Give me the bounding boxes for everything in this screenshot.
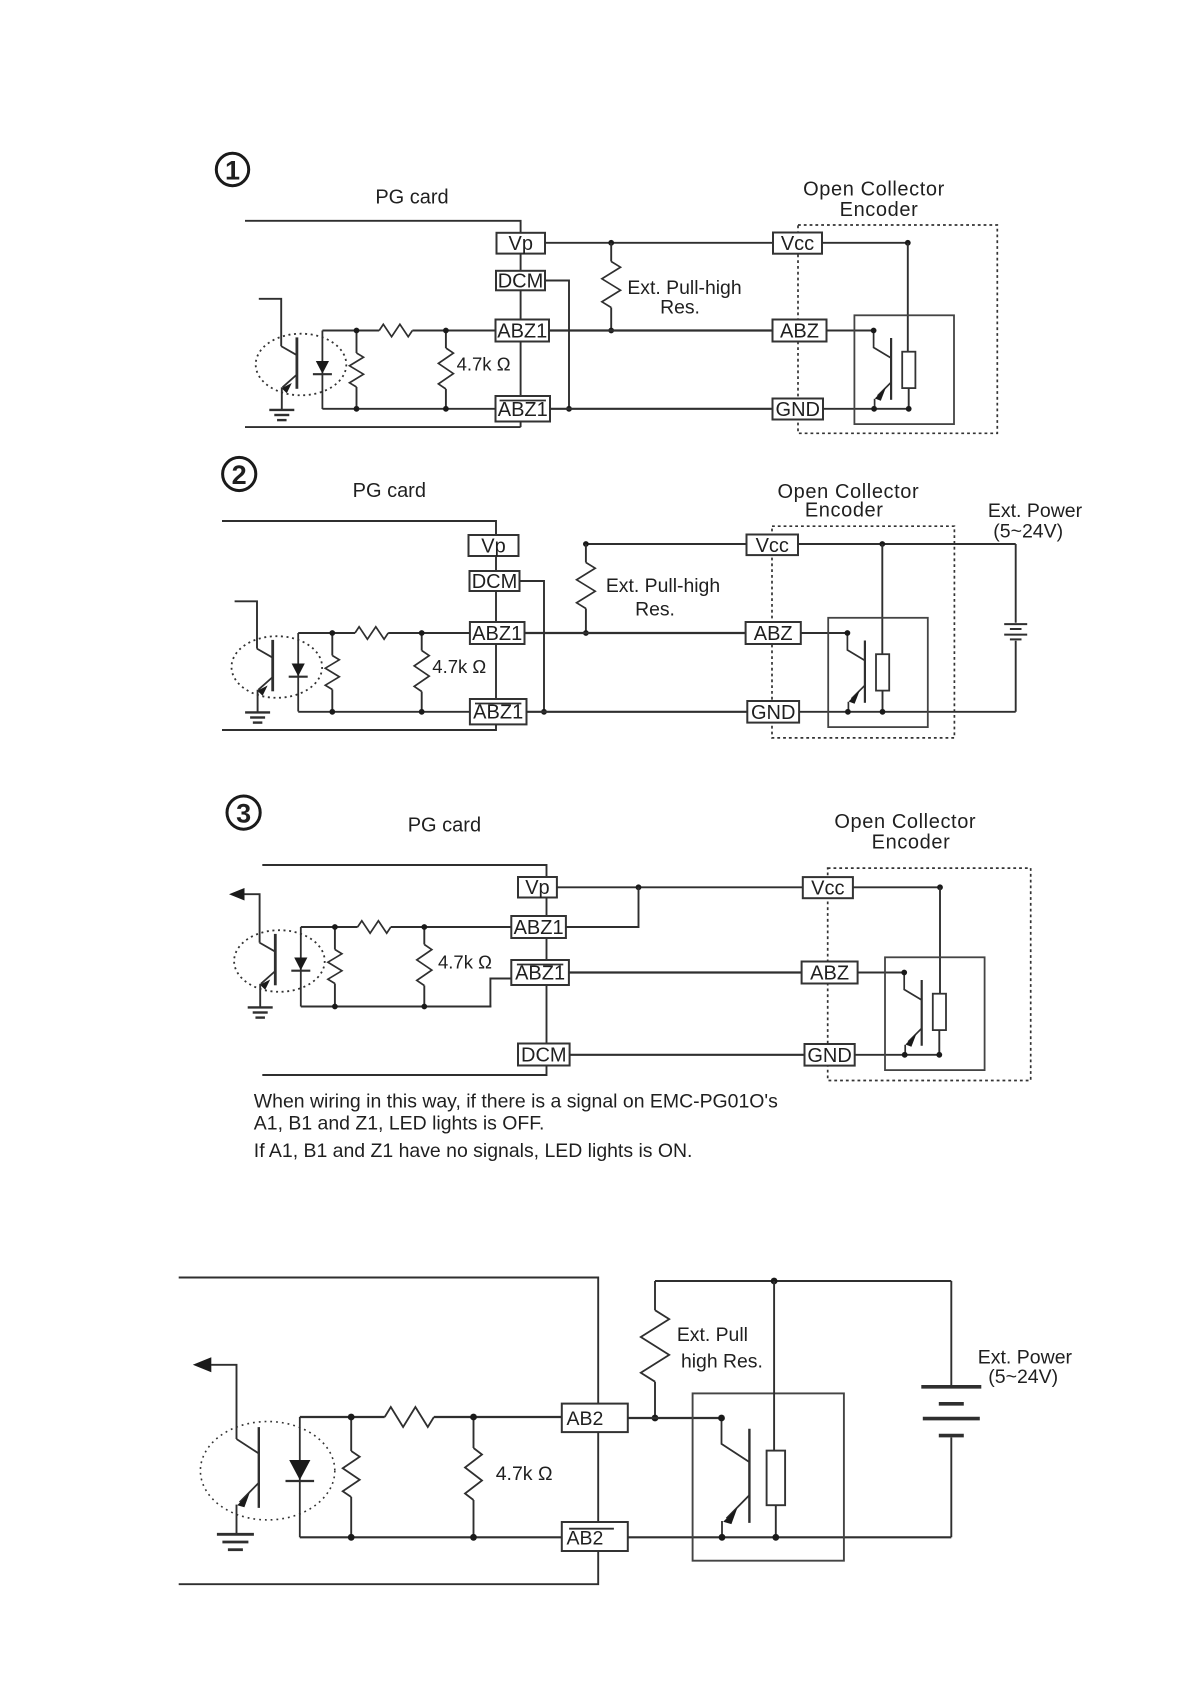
junction [332,1004,338,1010]
opto dotted outline [231,636,322,698]
PG card bottom border [222,724,496,730]
ground [217,1533,254,1536]
wire - Vp to Vcc [545,242,773,244]
opto IR photodiode D [300,927,302,1007]
wire - ABZ1bar to GND [527,711,748,713]
junction [901,970,907,976]
encoder output transistor [722,1418,749,1462]
junction [348,1534,355,1541]
junction [871,406,877,412]
wire - DCM jog to ABZ1bar line [545,281,569,409]
junction [354,328,360,334]
wire - Vp to Vcc [557,886,804,888]
wire [520,342,522,397]
wire - GND into encoder [855,1054,941,1056]
wire - resistor lower lead [908,388,910,409]
terminal ABZ1 [511,916,566,938]
resistor - Ext. Pull-high [610,243,612,262]
junction [470,1534,477,1541]
svg-text:(5~24V): (5~24V) [993,521,1063,543]
terminal Vp [518,877,557,898]
wire - ext power feed [1015,544,1017,623]
junction [845,709,851,715]
junction [419,630,425,636]
svg-text:Vcc: Vcc [781,233,814,255]
terminal ABZ1 [496,320,550,342]
wire [520,254,522,271]
svg-text:DCM: DCM [472,571,518,593]
terminal AB2 (inverted) [562,1522,628,1551]
wire - Vcc drop to resistor [881,544,883,654]
svg-text:ABZ1: ABZ1 [515,963,565,985]
resistor - series R2 [355,627,388,639]
junction [652,1415,659,1422]
ground [245,711,270,713]
junction [608,240,614,246]
resistor - series R2 [379,324,412,336]
junction [329,630,335,636]
battery - Ext. Power 5~24V [921,1385,981,1389]
resistor - series R2 [358,921,391,933]
wire - resistor lower lead [882,691,884,712]
opto photo-transistor Q [281,346,297,355]
terminal Vp [497,233,546,254]
terminal Vcc [747,535,799,556]
wire - Vcc to ext power [798,543,1016,545]
resistor - encoder internal [933,994,946,1030]
svg-text:high Res.: high Res. [681,1351,763,1373]
svg-text:(5~24V): (5~24V) [988,1366,1058,1388]
svg-text:Encoder: Encoder [840,199,919,221]
wire - AB2bar wire [628,1536,951,1538]
terminal AB2 [562,1404,628,1433]
resistor - encoder internal [767,1451,786,1506]
wire - DCM to GND [570,1054,805,1056]
wire - ext pull top rail [655,1280,951,1282]
svg-text:Vp: Vp [509,233,533,255]
wire - Vcc drop to resistor [939,887,941,995]
svg-text:2: 2 [232,460,247,490]
PG card bottom border [179,1551,599,1584]
junction [566,406,572,412]
junction [443,328,449,334]
resistor R3 4.7k [423,927,425,945]
wire - arrow lead [244,894,259,942]
wire - opto top rail left [301,926,358,928]
svg-text:DCM: DCM [498,271,544,293]
svg-text:3: 3 [236,798,251,828]
resistor - opto input R1 [350,1417,352,1451]
opto photo-transistor Q [260,943,276,952]
resistor - encoder internal [902,352,915,388]
wire - emitter to ground [257,690,259,712]
terminal DCM [470,571,520,591]
svg-text:AB2: AB2 [567,1527,604,1549]
wire - ABZ1 to ABZ [525,632,746,634]
PG card top border [222,521,496,535]
wire - ABZ into encoder [801,632,848,634]
wire - Vcc drop to resistor [907,243,909,352]
junction [329,709,335,715]
junction [871,328,877,334]
opto dotted outline [234,930,325,992]
junction [608,328,614,334]
terminal Vcc [773,233,822,254]
terminal Vcc [803,877,853,898]
resistor - Ext. Pull high [654,1281,656,1310]
junction [880,709,886,715]
wire [495,591,497,622]
junction [905,240,911,246]
svg-text:Res.: Res. [635,599,675,621]
svg-text:Vp: Vp [481,536,505,558]
junction [719,1534,726,1541]
encoder output transistor [847,633,865,661]
terminal ABZ1 (inverted) [470,699,527,724]
wire - emitter to ground [259,984,261,1007]
wire - emitter to ground [236,1505,238,1534]
wire - AB2 to encoder [628,1417,722,1419]
wire - Vcc drop to resistor [773,1281,775,1451]
junction [636,884,642,890]
opto dotted outline [200,1422,334,1520]
terminal GND [805,1044,855,1066]
section 1 marker (circled 1) [216,153,248,185]
wire - DCM jog to ABZ1bar line [520,581,545,712]
wire - pullhigh to Vcc [586,543,747,545]
Open Collector Encoder dashed outline [828,868,1031,1080]
Open Collector Encoder dashed outline [772,526,954,738]
wire [495,556,497,571]
svg-text:Ext. Pull: Ext. Pull [677,1324,748,1346]
resistor R3 4.7k [421,633,423,651]
wire [520,290,522,319]
junction [879,541,885,547]
resistor - opto input R1 [334,927,336,950]
svg-text:PG card: PG card [375,187,448,209]
svg-text:Ext. Pull-high: Ext. Pull-high [606,575,720,597]
resistor R3 4.7k [445,331,447,349]
wire - ext power feed [950,1281,952,1385]
svg-text:GND: GND [807,1045,851,1067]
junction [583,630,589,636]
wire [495,644,497,699]
wire - opto bottom rail [301,1006,492,1008]
terminal ABZ1 [470,622,525,644]
svg-text:ABZ: ABZ [810,963,849,985]
signal arrow to PG card input [229,888,245,901]
junction [421,924,427,930]
wire - ABZ into encoder [858,972,905,974]
wire - opto top rail left [298,632,355,634]
svg-text:1: 1 [225,155,240,185]
svg-text:If A1, B1 and Z1 have no signa: If A1, B1 and Z1 have no signals, LED li… [254,1140,693,1162]
svg-text:Vp: Vp [525,877,549,899]
svg-text:Vcc: Vcc [756,535,789,557]
opto IR photodiode D [321,331,323,410]
PG card bottom border [245,422,521,428]
wire - opto top rail right [388,632,470,634]
junction [443,406,449,412]
wire - Vcc rail [822,242,908,244]
terminal ABZ [802,962,858,984]
wire - emitter to ground [281,387,283,409]
svg-text:Res.: Res. [660,297,700,319]
svg-text:ABZ1: ABZ1 [514,917,564,939]
terminal ABZ1 (inverted) [496,396,551,422]
svg-text:Open Collector: Open Collector [834,811,976,833]
resistor - opto input R1 [356,331,358,354]
svg-text:AB2: AB2 [567,1408,604,1430]
wire - opto bottom rail [298,711,470,713]
opto IR photodiode D [297,633,299,712]
junction [772,1534,779,1541]
wire - Vcc rail [853,886,940,888]
resistor R3 4.7k [473,1417,475,1448]
wire - GND into encoder [823,408,909,410]
svg-text:GND: GND [776,399,820,421]
resistor - opto input R1 [331,633,333,656]
opto photo-transistor Q [237,1439,259,1454]
encoder output transistor [904,973,922,1001]
signal arrow to PG card input [193,1357,212,1372]
wire - ABZ1 to ABZ [549,329,773,331]
junction [906,406,912,412]
junction [354,406,360,412]
terminal ABZ [773,320,827,342]
wire [546,985,548,1044]
opto IR photodiode D [299,1417,301,1537]
wire - opto top rail left [300,1416,385,1418]
svg-text:ABZ: ABZ [754,623,793,645]
wire - opto collector stub [235,601,257,648]
svg-text:When wiring in this way, if th: When wiring in this way, if there is a s… [254,1090,778,1112]
battery - Ext. Power 5~24V [1004,623,1027,625]
PG card top border [179,1278,599,1405]
svg-text:PG card: PG card [353,480,426,502]
PG card top border [262,865,546,877]
junction [332,924,338,930]
wire - opto bottom rail [300,1536,562,1538]
svg-text:ABZ1: ABZ1 [472,623,522,645]
wire - opto top rail left [322,330,379,332]
PG card top border [245,221,521,233]
junction [470,1414,477,1421]
svg-text:4.7k Ω: 4.7k Ω [457,354,511,375]
terminal ABZ [746,622,801,644]
encoder inner box [854,315,954,424]
svg-text:ABZ1: ABZ1 [473,702,523,724]
encoder inner box [693,1393,844,1560]
junction [937,884,943,890]
resistor - Ext. Pull-high [585,544,587,563]
encoder inner box [885,957,985,1070]
wire - ABZ into encoder [827,330,874,332]
junction [845,630,851,636]
wire - ABZ1bar to GND [550,408,773,410]
svg-text:Vcc: Vcc [811,878,844,900]
svg-text:Encoder: Encoder [872,832,951,854]
svg-text:4.7k Ω: 4.7k Ω [496,1463,553,1485]
terminal DCM [518,1044,570,1066]
wire - resistor lower lead [775,1505,777,1537]
junction [419,709,425,715]
wire - opto top rail right [412,330,495,332]
ground [269,409,294,411]
junction [771,1278,778,1285]
wire - ABZ1bar to ABZ [569,971,802,973]
terminal ABZ1 (inverted) [511,960,569,985]
wire - GND to ext power return [799,711,1016,713]
terminal Vp [469,535,519,556]
svg-text:ABZ: ABZ [780,321,819,343]
wire - ext power return [950,1438,952,1538]
svg-text:PG card: PG card [408,814,481,836]
svg-text:Open Collector: Open Collector [803,178,945,200]
junction [902,1052,908,1058]
opto dotted outline [256,334,347,396]
junction [421,1004,427,1010]
svg-text:4.7k Ω: 4.7k Ω [432,656,486,677]
opto photo-transistor Q [257,649,273,658]
wire [597,1432,599,1522]
svg-text:GND: GND [751,702,795,724]
encoder output transistor [874,331,892,359]
Open Collector Encoder dashed outline [798,225,997,433]
svg-text:ABZ1: ABZ1 [498,399,548,421]
wire - ext power return [1015,641,1017,712]
wire - opto bottom rail [322,408,495,410]
wire - opto top rail right [391,926,512,928]
wire [546,938,548,960]
svg-text:4.7k Ω: 4.7k Ω [438,952,492,973]
junction [348,1414,355,1421]
wire - opto collector stub [259,299,281,346]
wire - bottom rail jog to ABZ1bar [490,979,511,1007]
svg-text:DCM: DCM [521,1045,567,1067]
wire - arrow lead [211,1365,237,1439]
terminal GND [747,701,799,723]
resistor - encoder internal [876,654,889,690]
terminal GND [773,399,824,420]
junction [541,709,547,715]
resistor - series R2 [385,1407,434,1427]
ground [248,1006,273,1008]
terminal DCM [496,271,545,291]
svg-text:ABZ1: ABZ1 [497,321,547,343]
junction [718,1415,725,1422]
section 2 marker (circled 2) [223,457,256,490]
junction [936,1052,942,1058]
svg-text:A1, B1 and Z1, LED lights is O: A1, B1 and Z1, LED lights is OFF. [254,1113,545,1135]
section 3 marker (circled 3) [227,796,260,829]
encoder inner box [828,618,928,727]
svg-text:Encoder: Encoder [805,500,884,522]
wire - Vp drop to ABZ1 [566,887,639,927]
PG card bottom border [262,1066,546,1076]
junction [583,541,589,547]
wire - opto top rail right [434,1416,562,1418]
wire - resistor lower lead [938,1030,940,1055]
svg-text:Ext. Power: Ext. Power [988,500,1083,522]
wire [546,898,548,917]
